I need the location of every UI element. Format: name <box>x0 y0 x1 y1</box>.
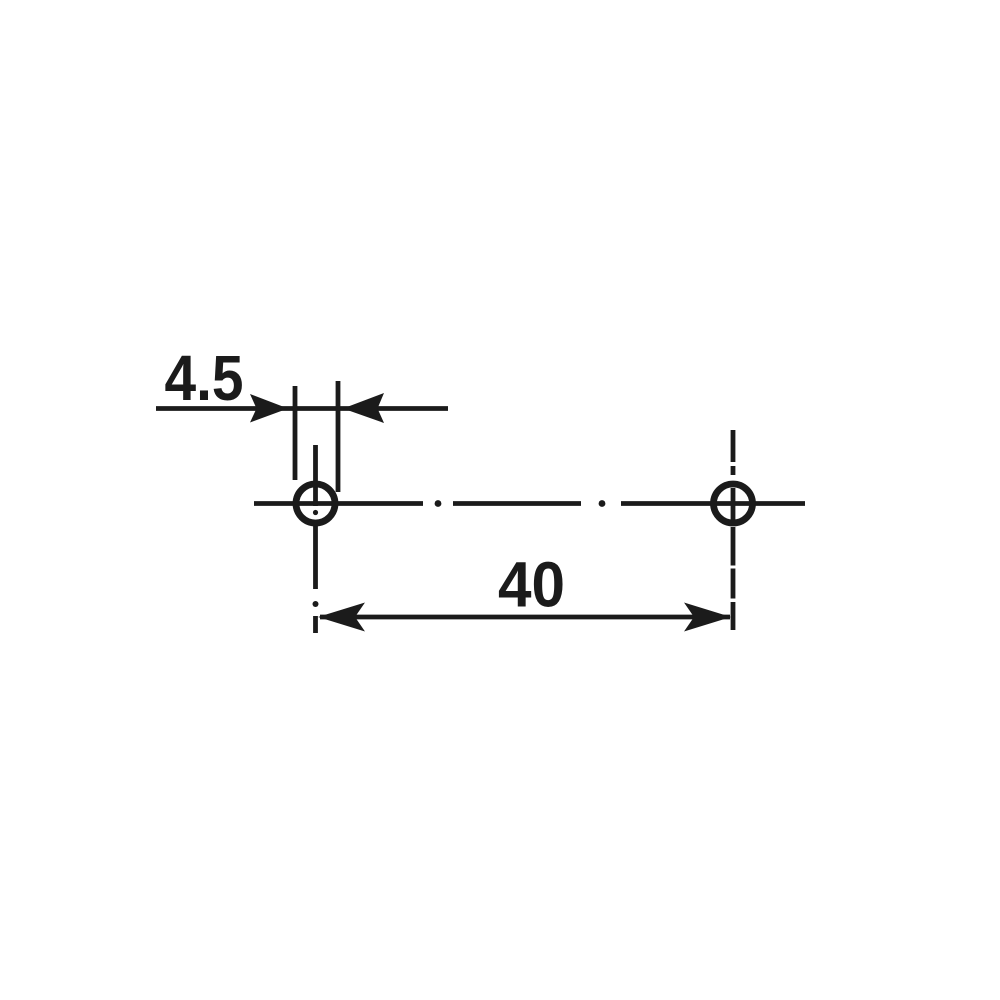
svg-text:4.5: 4.5 <box>165 342 244 414</box>
svg-text:40: 40 <box>498 549 565 621</box>
